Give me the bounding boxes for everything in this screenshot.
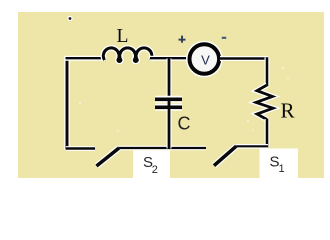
svg-text:2: 2 — [152, 164, 158, 176]
resistor R — [256, 85, 273, 120]
wire left vertical — [64, 56, 70, 150]
label C — [178, 114, 191, 134]
inductor L — [103, 48, 152, 62]
label box S1 — [260, 149, 299, 179]
wire capacitor branch upper — [167, 59, 172, 99]
wire right vertical lower (resistor to switch S1) — [265, 119, 270, 148]
svg-text:L: L — [117, 26, 129, 47]
label L — [117, 26, 129, 47]
speckle artifacts — [79, 67, 289, 132]
svg-text:C: C — [178, 114, 191, 134]
polarity minus — [222, 37, 226, 39]
wire top left (node to inductor) — [66, 56, 106, 61]
stray mark — [67, 16, 72, 21]
svg-text:V: V — [201, 53, 210, 68]
switch S2 — [97, 148, 120, 166]
switch S1 — [214, 146, 236, 165]
wire right vertical upper (corner to resistor) — [265, 58, 270, 87]
wire top middle (inductor to voltmeter) — [150, 56, 189, 61]
capacitor C — [155, 99, 182, 107]
wire bottom right (S1 to resistor branch) — [236, 144, 268, 149]
wire bottom middle (S2 to S1 gap) — [118, 146, 206, 151]
polarity plus — [179, 36, 186, 43]
wire bottom left (left corner to S2) — [66, 146, 95, 151]
node capacitor top junction — [168, 58, 171, 60]
voltmeter V — [190, 44, 220, 74]
svg-text:1: 1 — [279, 163, 285, 175]
wire capacitor branch lower — [167, 109, 172, 149]
wire top right (voltmeter to corner) — [220, 56, 268, 61]
label S1 — [270, 154, 285, 176]
svg-text:R: R — [281, 99, 295, 123]
label R — [281, 99, 295, 123]
label S2 — [143, 154, 158, 176]
label box S2 — [133, 151, 170, 179]
background panel — [18, 12, 324, 178]
